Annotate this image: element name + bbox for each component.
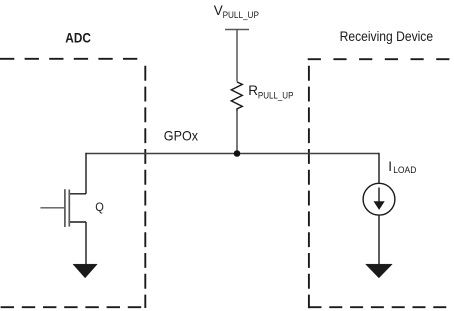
transistor Q source lead: [69, 221, 86, 223]
label ILOAD: [388, 159, 416, 176]
transistor Q (NMOS) drain lead: [69, 193, 86, 195]
svg-text:PULL_UP: PULL_UP: [258, 90, 294, 101]
svg-text:GPOx: GPOx: [164, 127, 198, 143]
svg-text:Q: Q: [95, 200, 104, 214]
svg-text:I: I: [388, 159, 392, 174]
node junction dot: [234, 150, 241, 157]
wire current source to ground: [378, 215, 380, 265]
svg-text:V: V: [214, 3, 223, 18]
label VPULL_UP: [214, 3, 259, 21]
svg-text:Receiving Device: Receiving Device: [340, 29, 434, 45]
resistor RPULL_UP: [231, 82, 242, 111]
ADC enclosure bottom edge (dashed): [1, 306, 146, 308]
wire GPOx horizontal net: [86, 153, 379, 155]
svg-text:LOAD: LOAD: [393, 165, 416, 176]
transistor Q channel bar: [68, 190, 70, 227]
current source arrow head: [374, 201, 385, 210]
current source ILOAD (circle): [363, 183, 395, 215]
transistor Q gate lead: [40, 207, 65, 209]
Receiving Device enclosure bottom edge (dashed): [309, 306, 454, 308]
wire riser to current source: [378, 153, 380, 184]
wire drain riser: [85, 153, 87, 194]
svg-text:R: R: [248, 83, 258, 98]
power rail VPULL_UP (T bar): [225, 29, 249, 31]
wire from VPULL_UP bar to resistor: [236, 30, 238, 82]
wire source to ground: [85, 222, 87, 265]
ground (ADC side): [73, 264, 97, 278]
wire from resistor to node: [236, 111, 238, 154]
transistor Q gate bar: [64, 189, 66, 227]
ground (Receiving Device side): [366, 264, 393, 278]
ADC enclosure right edge (dashed): [144, 66, 146, 308]
current source arrow shaft: [378, 188, 380, 203]
Receiving Device enclosure left edge (dashed): [308, 66, 310, 308]
label RPULL_UP: [248, 83, 293, 101]
svg-text:ADC: ADC: [65, 31, 91, 47]
ADC enclosure top edge (dashed): [0, 58, 145, 60]
svg-text:PULL_UP: PULL_UP: [223, 10, 259, 21]
Receiving Device enclosure top edge (dashed): [308, 58, 454, 60]
